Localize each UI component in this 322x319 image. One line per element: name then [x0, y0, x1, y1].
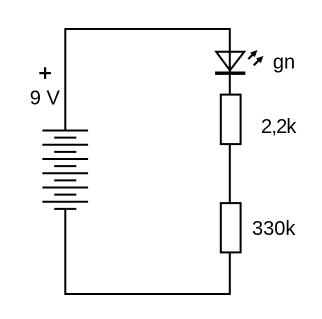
svg-text:330k: 330k: [252, 218, 296, 240]
battery plate short 5: [54, 194, 76, 196]
battery plate long 1: [42, 130, 88, 132]
battery plate long 6: [42, 201, 88, 203]
battery plate long 3: [42, 158, 88, 160]
battery plate short 2: [54, 151, 76, 153]
resistor R1: [221, 95, 241, 145]
battery plus sign: [39, 67, 51, 79]
battery plate long 5: [42, 187, 88, 189]
svg-text:gn: gn: [273, 52, 295, 74]
LED D1 cathode bar: [215, 71, 245, 74]
battery plate short 4: [54, 179, 76, 181]
wire R2 down, bottom wire, and up to battery minus: [65, 209, 230, 294]
wire LED cathode to R1: [229, 75, 231, 95]
resistor R2: [221, 203, 241, 252]
battery B1: [42, 131, 88, 209]
battery plate long 2: [42, 144, 88, 146]
LED light arrow 1: [248, 50, 257, 59]
LED D1 triangle: [216, 52, 244, 71]
battery plate short 6: [54, 208, 76, 210]
battery plate short 3: [54, 165, 76, 167]
battery plate long 4: [42, 172, 88, 174]
svg-text:9 V: 9 V: [30, 88, 61, 110]
LED light arrow 2: [254, 56, 264, 66]
battery plate short 1: [54, 137, 76, 139]
wire top and left (battery + terminal to LED anode): [65, 29, 230, 131]
wire R1 to R2: [229, 144, 231, 203]
svg-text:2,2k: 2,2k: [261, 116, 297, 138]
